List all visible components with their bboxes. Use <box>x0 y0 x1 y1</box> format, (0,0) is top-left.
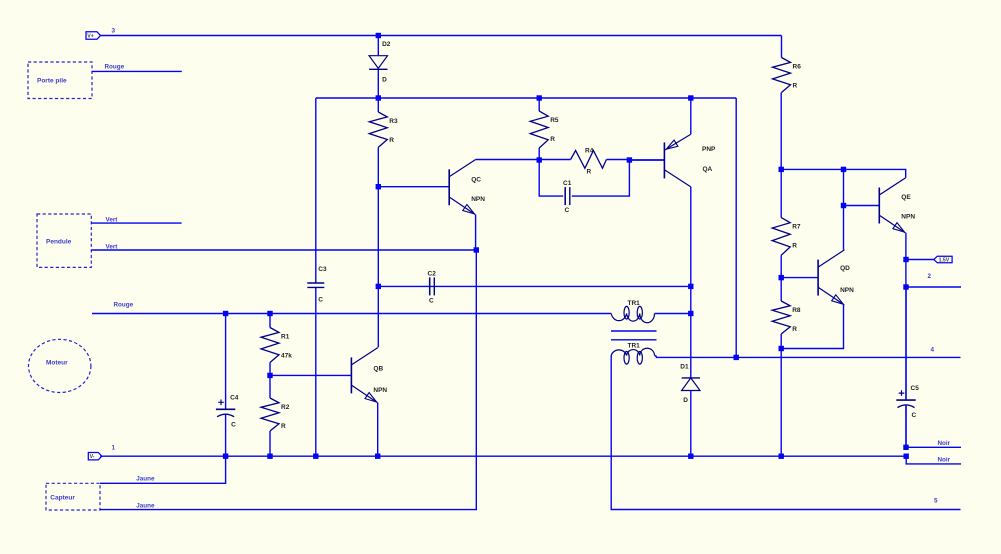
transistor QA PNP <box>663 142 665 178</box>
wire QE base wire <box>844 205 880 207</box>
svg-text:C2: C2 <box>428 270 437 277</box>
svg-text:4: 4 <box>931 347 935 354</box>
junction node 14 at (844,206) <box>841 203 846 208</box>
wire Jaune 1 from Capteur up to V- rail <box>100 456 226 483</box>
capacitor C5 polarized <box>905 287 907 400</box>
svg-text:PNP: PNP <box>702 146 716 153</box>
junction node 4 at (691,98) <box>688 95 693 100</box>
junction node 10 at (691,314) <box>688 311 693 316</box>
wire R6 column from top rail <box>781 36 783 58</box>
wire QB base from R1-R2 node <box>270 374 351 376</box>
junction node 26 at (378,456) <box>375 454 380 459</box>
svg-text:C: C <box>429 297 434 304</box>
svg-text:47k: 47k <box>281 353 292 360</box>
wire QE emitter riser <box>905 233 907 287</box>
junction node 13 at (844,169) <box>841 167 846 172</box>
junction node 22 at (476,250) <box>474 247 479 252</box>
svg-text:R6: R6 <box>793 64 802 71</box>
wire QC emitter down to Vert node <box>475 215 477 251</box>
transformer TR1 core line 2 <box>611 339 657 341</box>
svg-text:R: R <box>281 423 286 430</box>
wire Vert 2 from Pendule to node QB-emitter net <box>91 249 476 251</box>
dashed box Pendule <box>37 214 91 267</box>
svg-text:QC: QC <box>471 176 481 183</box>
wire C1 branch right <box>572 160 630 196</box>
junction node 8 at (378,286) <box>376 284 381 289</box>
wire TR1 primary right lead <box>655 313 691 315</box>
svg-text:R3: R3 <box>389 118 398 125</box>
wire x843 QD collector riser <box>843 169 845 205</box>
resistor R8 <box>780 277 782 302</box>
resistor R3 <box>377 98 379 112</box>
svg-text:NPN: NPN <box>471 196 485 203</box>
resistor R4 <box>539 159 570 161</box>
wire x781 R8 to bottom rail <box>780 349 782 457</box>
wire QB emitter down to V- rail <box>377 403 379 457</box>
svg-text:V-: V- <box>90 454 95 460</box>
svg-text:NPN: NPN <box>373 387 387 394</box>
resistor R7 <box>780 169 782 217</box>
junction node 12 at (781,169) <box>779 167 784 172</box>
svg-text:C3: C3 <box>318 266 327 273</box>
svg-text:Capteur: Capteur <box>50 495 75 502</box>
svg-text:NPN: NPN <box>901 213 915 220</box>
wire QA emitter to y98 rail <box>690 98 692 134</box>
junction node 9 at (691,286) <box>688 284 693 289</box>
wire dangling Rouge from Porte pile <box>92 70 182 72</box>
svg-text:R: R <box>550 136 555 143</box>
dashed box Porte pile <box>28 62 92 99</box>
svg-text:V+: V+ <box>87 34 94 40</box>
svg-text:R5: R5 <box>550 117 559 124</box>
svg-text:R: R <box>389 137 394 144</box>
svg-text:C: C <box>318 296 323 303</box>
svg-text:Vert: Vert <box>106 243 119 250</box>
svg-text:Moteur: Moteur <box>46 360 68 367</box>
wire D2 to y98 rail <box>377 69 379 98</box>
wire x691 TR1-primary to D1 <box>690 286 692 378</box>
wire D1 anode to bottom rail <box>690 391 692 457</box>
svg-text:C: C <box>565 207 570 214</box>
svg-text:R: R <box>792 243 797 250</box>
resistor R6 <box>781 57 783 59</box>
wire C5 column <box>905 287 907 399</box>
wire Noir2 elbow <box>906 456 961 464</box>
wire C5 to Noir1 <box>905 406 907 447</box>
svg-text:QE: QE <box>901 194 911 201</box>
wire QD emitter riser <box>781 305 843 349</box>
wire QD base wire <box>781 277 818 279</box>
svg-text:Rouge: Rouge <box>105 63 125 70</box>
junction node 28 at (781,456) <box>779 454 784 459</box>
wire C2 horizontal <box>378 285 691 287</box>
junction node 2 at (378,98) <box>376 95 381 100</box>
svg-text:QA: QA <box>703 166 713 173</box>
svg-text:C: C <box>231 421 236 428</box>
svg-text:D1: D1 <box>680 364 689 371</box>
capacitor C1 <box>564 187 566 205</box>
svg-text:D: D <box>382 77 387 84</box>
junction node 29 at (906,447) <box>903 445 908 450</box>
wire Noir1 <box>906 446 961 448</box>
junction node 20 at (270,314) <box>267 311 272 316</box>
svg-text:1: 1 <box>112 445 116 452</box>
transistor QC NPN <box>448 169 450 205</box>
dashed box Capteur <box>46 483 100 510</box>
svg-text:TR1: TR1 <box>628 300 641 307</box>
dashed ellipse Moteur <box>29 339 91 392</box>
junction node 19 at (226,314) <box>223 311 228 316</box>
svg-text:R2: R2 <box>281 404 290 411</box>
junction node 15 at (781,278) <box>779 275 784 280</box>
svg-text:QB: QB <box>373 365 383 372</box>
wire QC base from R3 node <box>378 186 449 188</box>
wire QC collector to R5 node <box>476 159 540 161</box>
diode D1 <box>682 378 700 391</box>
wire D2 R3 column top <box>377 36 379 56</box>
resistor R2 <box>269 375 271 398</box>
junction node 25 at (316,456) <box>313 454 318 459</box>
junction node 17 at (906,260) <box>903 257 908 262</box>
junction node 23 at (226,456) <box>223 454 228 459</box>
junction node 21 at (270,375) <box>267 373 272 378</box>
wire x378 riser C2 node to QB collector <box>377 286 379 347</box>
transformer TR1 primary winding <box>611 314 654 323</box>
wire bottom rail V- net1 <box>100 455 906 457</box>
svg-text:Noir: Noir <box>938 440 951 447</box>
svg-text:Jaune: Jaune <box>136 476 155 483</box>
wire x736 from y98 rail to net4 <box>735 98 737 357</box>
diode D2 <box>369 56 387 69</box>
wire net5 from TR1 secondary <box>611 356 960 510</box>
svg-text:Porte pile: Porte pile <box>37 78 67 85</box>
wire TR1 secondary right lead / net4 <box>655 356 961 358</box>
wire R4node to QA base <box>629 159 664 161</box>
svg-text:Pendule: Pendule <box>46 238 72 245</box>
wire y98 rail <box>316 97 736 99</box>
wire Rouge motor rail <box>92 313 611 315</box>
svg-text:3: 3 <box>112 28 116 35</box>
connector flag 1.5V <box>934 256 952 263</box>
transformer TR1 core line 1 <box>611 330 657 332</box>
capacitor C2 <box>429 277 431 295</box>
svg-text:Rouge: Rouge <box>114 301 134 308</box>
wire 1.5V stub <box>906 259 934 261</box>
wire net2 <box>906 286 961 288</box>
svg-text:C5: C5 <box>911 385 920 392</box>
junction node 7 at (629,160) <box>627 157 632 162</box>
transistor QD NPN <box>817 260 819 296</box>
svg-text:R: R <box>792 326 797 333</box>
junction node 27 at (691,456) <box>688 454 693 459</box>
junction node 18 at (906,287) <box>903 284 908 289</box>
junction node 24 at (270,456) <box>267 454 272 459</box>
svg-text:C1: C1 <box>563 180 572 187</box>
connector flag V- net 1 <box>88 453 102 460</box>
svg-text:R: R <box>587 169 592 176</box>
junction node 6 at (539,160) <box>537 157 542 162</box>
wire C1 branch left <box>539 160 563 196</box>
svg-text:C4: C4 <box>230 394 239 401</box>
junction node 30 at (906,456) <box>904 454 909 459</box>
svg-text:D2: D2 <box>382 41 391 48</box>
wire y169 QE collector rail <box>781 169 906 177</box>
transistor QB NPN <box>350 357 352 393</box>
svg-text:QD: QD <box>840 265 850 272</box>
junction node 16 at (781,348) <box>779 346 784 351</box>
resistor R1 47k <box>269 314 271 328</box>
svg-text:Noir: Noir <box>938 457 951 464</box>
junction node 1 at (378,36) <box>376 33 381 38</box>
junction node 5 at (378,187) <box>376 184 381 189</box>
wire Jaune 2 from Capteur to x476 riser <box>100 250 476 510</box>
svg-text:C: C <box>912 412 917 419</box>
wire R6 to R7 node <box>780 93 782 170</box>
transistor QE NPN <box>878 188 880 224</box>
junction node 11 at (736,357) <box>734 355 739 360</box>
svg-text:R8: R8 <box>792 307 801 314</box>
connector flag V+ net 3 <box>86 32 101 39</box>
svg-text:D: D <box>683 397 688 404</box>
wire net3 top rail V+ <box>100 35 782 37</box>
svg-text:2: 2 <box>928 273 932 280</box>
transformer TR1 secondary winding <box>611 348 654 355</box>
junction node 3 at (539,98) <box>537 95 542 100</box>
svg-text:Jaune: Jaune <box>136 503 155 510</box>
wire QA collector down to C2 wire <box>690 187 692 287</box>
svg-text:1.5V: 1.5V <box>939 258 950 264</box>
svg-text:NPN: NPN <box>840 287 854 294</box>
wire QA base <box>629 159 664 161</box>
wire QD collector diag end <box>843 206 845 250</box>
resistor R5 <box>538 98 540 111</box>
wire x315 riser C3 top <box>315 98 317 283</box>
svg-text:R4: R4 <box>585 148 594 155</box>
svg-text:TR1: TR1 <box>628 343 641 350</box>
capacitor C3 <box>315 282 317 283</box>
wire dangling Vert 1 from Pendule <box>91 222 181 224</box>
svg-text:R: R <box>793 83 798 90</box>
capacitor C4 polarized <box>225 314 227 410</box>
svg-text:R1: R1 <box>281 334 290 341</box>
wire x378 riser R3node to C2 node <box>377 187 379 287</box>
svg-text:R7: R7 <box>792 224 801 231</box>
svg-text:5: 5 <box>934 497 938 504</box>
wire x315 riser C3 bottom <box>315 287 317 456</box>
